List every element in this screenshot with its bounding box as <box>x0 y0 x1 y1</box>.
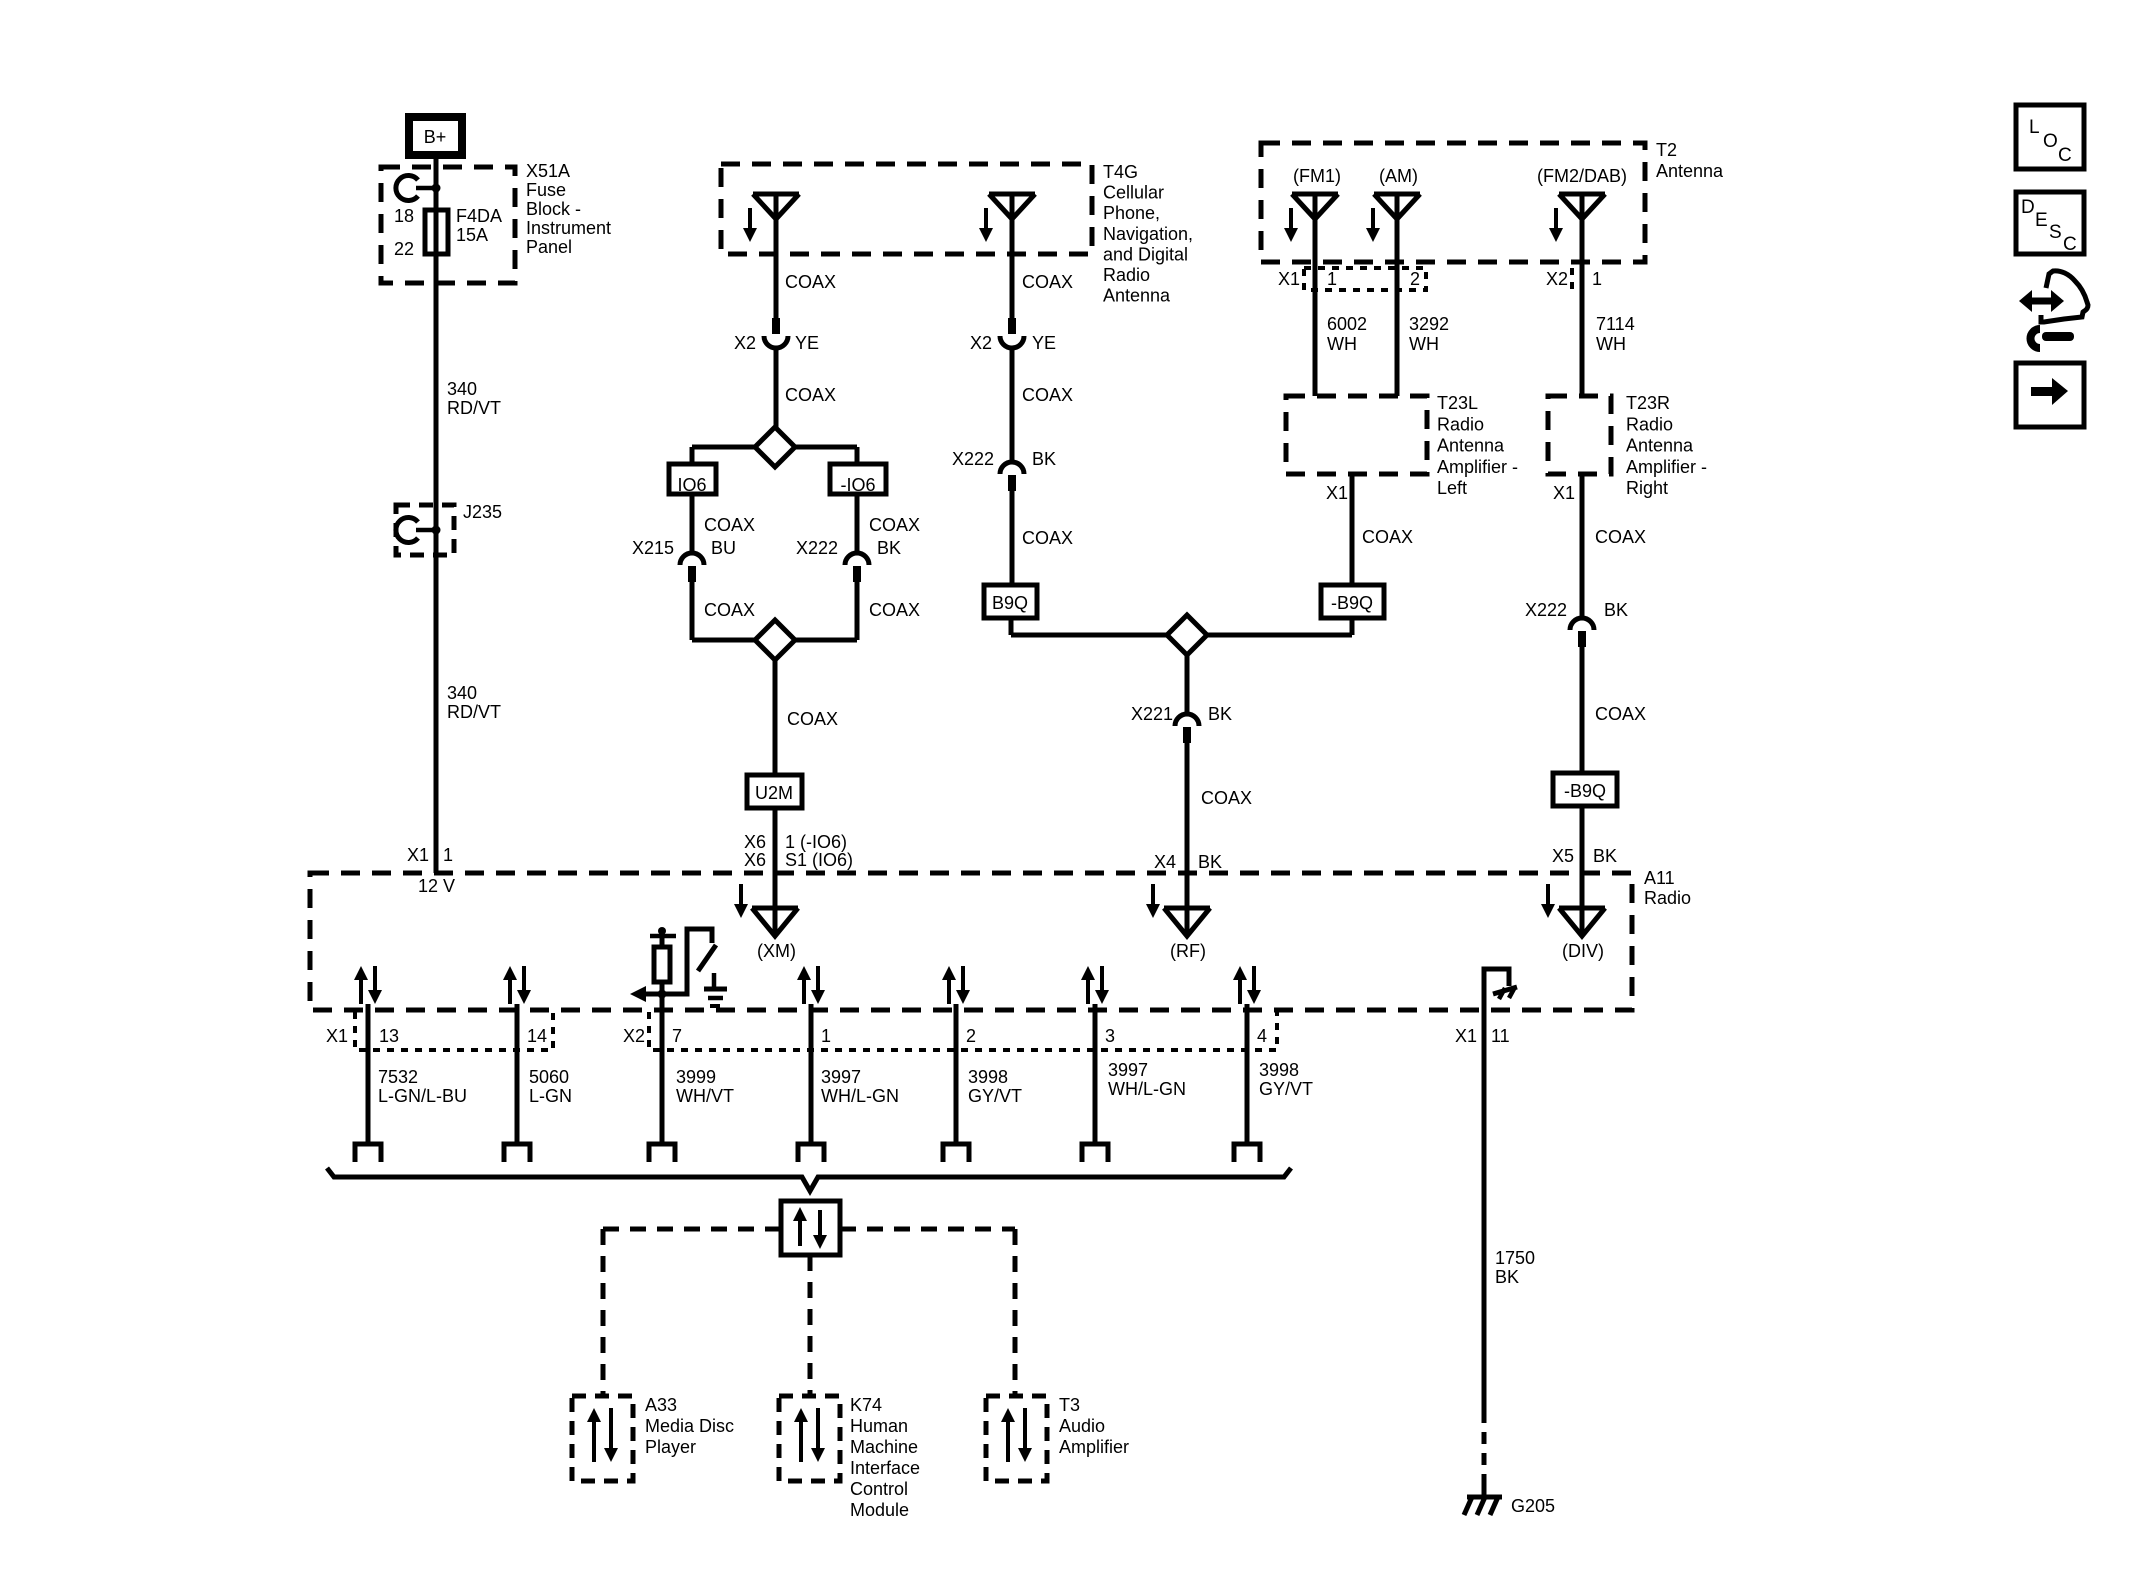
svg-text:COAX: COAX <box>1201 788 1252 808</box>
svg-text:WH: WH <box>1327 334 1357 354</box>
svg-text:14: 14 <box>527 1026 547 1046</box>
svg-text:Instrument: Instrument <box>526 218 611 238</box>
svg-text:COAX: COAX <box>787 709 838 729</box>
svg-text:and Digital: and Digital <box>1103 244 1188 264</box>
svg-text:BK: BK <box>1032 449 1056 469</box>
svg-text:RD/VT: RD/VT <box>447 702 501 722</box>
svg-text:-B9Q: -B9Q <box>1564 781 1606 801</box>
svg-text:X5: X5 <box>1552 846 1574 866</box>
svg-text:1750: 1750 <box>1495 1248 1535 1268</box>
svg-text:X2: X2 <box>1546 269 1568 289</box>
svg-text:Fuse: Fuse <box>526 180 566 200</box>
svg-text:(RF): (RF) <box>1170 941 1206 961</box>
svg-text:COAX: COAX <box>704 600 755 620</box>
svg-text:4: 4 <box>1257 1026 1267 1046</box>
svg-text:(AM): (AM) <box>1379 166 1418 186</box>
svg-text:Machine: Machine <box>850 1437 918 1457</box>
svg-text:2: 2 <box>1410 269 1420 289</box>
svg-text:L-GN: L-GN <box>529 1086 572 1106</box>
svg-text:O: O <box>2043 131 2058 152</box>
svg-text:1: 1 <box>821 1026 831 1046</box>
svg-text:X215: X215 <box>632 538 674 558</box>
svg-text:J235: J235 <box>463 502 502 522</box>
svg-text:T4G: T4G <box>1103 162 1138 182</box>
svg-text:C: C <box>2058 145 2072 166</box>
svg-text:3998: 3998 <box>1259 1060 1299 1080</box>
svg-text:X1: X1 <box>326 1026 348 1046</box>
svg-text:IO6: IO6 <box>677 475 706 495</box>
svg-text:COAX: COAX <box>1022 385 1073 405</box>
svg-text:S1 (IO6): S1 (IO6) <box>785 850 853 870</box>
svg-text:15A: 15A <box>456 225 488 245</box>
svg-text:WH/VT: WH/VT <box>676 1086 734 1106</box>
svg-text:22: 22 <box>394 239 414 259</box>
svg-text:Cellular: Cellular <box>1103 183 1164 203</box>
svg-text:YE: YE <box>795 333 819 353</box>
svg-text:COAX: COAX <box>704 515 755 535</box>
svg-text:B9Q: B9Q <box>992 593 1028 613</box>
svg-text:Control: Control <box>850 1479 908 1499</box>
svg-text:YE: YE <box>1032 333 1056 353</box>
svg-text:BK: BK <box>1208 704 1232 724</box>
svg-text:L: L <box>2029 117 2040 138</box>
svg-text:F4DA: F4DA <box>456 206 502 226</box>
svg-text:T2: T2 <box>1656 140 1677 160</box>
svg-text:D: D <box>2021 197 2035 218</box>
svg-text:WH: WH <box>1409 334 1439 354</box>
svg-text:(XM): (XM) <box>757 941 796 961</box>
svg-text:1: 1 <box>443 845 453 865</box>
svg-text:Interface: Interface <box>850 1458 920 1478</box>
svg-text:3997: 3997 <box>821 1067 861 1087</box>
svg-text:Audio: Audio <box>1059 1416 1105 1436</box>
svg-text:1 (-IO6): 1 (-IO6) <box>785 832 847 852</box>
svg-text:B+: B+ <box>424 127 447 147</box>
svg-text:WH: WH <box>1596 334 1626 354</box>
svg-text:340: 340 <box>447 379 477 399</box>
svg-text:COAX: COAX <box>785 272 836 292</box>
svg-text:X2: X2 <box>970 333 992 353</box>
svg-text:7532: 7532 <box>378 1067 418 1087</box>
svg-text:Block -: Block - <box>526 199 581 219</box>
svg-text:2: 2 <box>966 1026 976 1046</box>
svg-text:Phone,: Phone, <box>1103 203 1160 223</box>
svg-text:18: 18 <box>394 206 414 226</box>
svg-text:S: S <box>2049 222 2062 243</box>
svg-text:GY/VT: GY/VT <box>1259 1079 1313 1099</box>
svg-text:COAX: COAX <box>1595 527 1646 547</box>
svg-text:BK: BK <box>877 538 901 558</box>
svg-text:BK: BK <box>1604 600 1628 620</box>
svg-text:Antenna: Antenna <box>1656 161 1724 181</box>
svg-text:-IO6: -IO6 <box>840 475 875 495</box>
svg-text:7114: 7114 <box>1596 314 1635 334</box>
svg-text:Right: Right <box>1626 478 1668 498</box>
svg-text:A33: A33 <box>645 1395 677 1415</box>
svg-text:G205: G205 <box>1511 1496 1555 1516</box>
svg-text:BK: BK <box>1495 1267 1519 1287</box>
svg-text:X6: X6 <box>744 850 766 870</box>
svg-text:13: 13 <box>379 1026 399 1046</box>
svg-text:COAX: COAX <box>1022 272 1073 292</box>
svg-text:X1: X1 <box>407 845 429 865</box>
svg-text:Amplifier -: Amplifier - <box>1626 457 1707 477</box>
svg-text:X6: X6 <box>744 832 766 852</box>
svg-text:X222: X222 <box>1525 600 1567 620</box>
svg-text:X222: X222 <box>952 449 994 469</box>
svg-text:COAX: COAX <box>869 515 920 535</box>
svg-text:Human: Human <box>850 1416 908 1436</box>
svg-text:L-GN/L-BU: L-GN/L-BU <box>378 1086 467 1106</box>
svg-text:7: 7 <box>672 1026 682 1046</box>
svg-text:Left: Left <box>1437 478 1467 498</box>
svg-text:Antenna: Antenna <box>1103 286 1171 306</box>
svg-text:Radio: Radio <box>1626 414 1673 434</box>
svg-text:5060: 5060 <box>529 1067 569 1087</box>
svg-text:-B9Q: -B9Q <box>1331 593 1373 613</box>
svg-text:(FM2/DAB): (FM2/DAB) <box>1537 166 1627 186</box>
svg-text:Amplifier: Amplifier <box>1059 1437 1129 1457</box>
svg-text:COAX: COAX <box>785 385 836 405</box>
svg-text:COAX: COAX <box>1022 528 1073 548</box>
svg-text:C: C <box>2063 234 2077 255</box>
svg-text:COAX: COAX <box>1595 704 1646 724</box>
svg-text:RD/VT: RD/VT <box>447 398 501 418</box>
svg-text:1: 1 <box>1592 269 1602 289</box>
svg-text:1: 1 <box>1327 269 1337 289</box>
svg-text:U2M: U2M <box>755 783 793 803</box>
svg-text:BK: BK <box>1198 852 1222 872</box>
svg-text:3998: 3998 <box>968 1067 1008 1087</box>
svg-text:Radio: Radio <box>1437 414 1484 434</box>
svg-text:Antenna: Antenna <box>1626 436 1694 456</box>
svg-text:3997: 3997 <box>1108 1060 1148 1080</box>
svg-text:T23R: T23R <box>1626 393 1670 413</box>
svg-text:3999: 3999 <box>676 1067 716 1087</box>
svg-text:X51A: X51A <box>526 161 570 181</box>
svg-text:(DIV): (DIV) <box>1562 941 1604 961</box>
svg-text:X2: X2 <box>623 1026 645 1046</box>
svg-text:X4: X4 <box>1154 852 1176 872</box>
svg-text:Panel: Panel <box>526 237 572 257</box>
svg-text:X1: X1 <box>1455 1026 1477 1046</box>
svg-text:K74: K74 <box>850 1395 882 1415</box>
svg-text:T3: T3 <box>1059 1395 1080 1415</box>
svg-text:12 V: 12 V <box>418 876 455 896</box>
svg-text:340: 340 <box>447 683 477 703</box>
svg-text:Navigation,: Navigation, <box>1103 224 1193 244</box>
svg-text:E: E <box>2035 210 2048 231</box>
svg-text:X1: X1 <box>1278 269 1300 289</box>
svg-text:X222: X222 <box>796 538 838 558</box>
svg-text:(FM1): (FM1) <box>1293 166 1341 186</box>
svg-text:Module: Module <box>850 1500 909 1520</box>
svg-text:11: 11 <box>1491 1026 1510 1046</box>
svg-text:A11: A11 <box>1644 868 1675 888</box>
svg-text:Radio: Radio <box>1644 888 1691 908</box>
svg-text:COAX: COAX <box>1362 527 1413 547</box>
svg-text:BU: BU <box>711 538 736 558</box>
svg-text:6002: 6002 <box>1327 314 1367 334</box>
svg-text:Media Disc: Media Disc <box>645 1416 734 1436</box>
svg-text:GY/VT: GY/VT <box>968 1086 1022 1106</box>
svg-text:Radio: Radio <box>1103 265 1150 285</box>
svg-text:Antenna: Antenna <box>1437 436 1505 456</box>
svg-text:WH/L-GN: WH/L-GN <box>1108 1079 1186 1099</box>
svg-text:Player: Player <box>645 1437 696 1457</box>
svg-text:X1: X1 <box>1326 483 1348 503</box>
svg-text:X221: X221 <box>1131 704 1173 724</box>
svg-text:3292: 3292 <box>1409 314 1449 334</box>
svg-text:Amplifier -: Amplifier - <box>1437 457 1518 477</box>
svg-text:WH/L-GN: WH/L-GN <box>821 1086 899 1106</box>
svg-text:X1: X1 <box>1553 483 1575 503</box>
svg-text:COAX: COAX <box>869 600 920 620</box>
svg-text:T23L: T23L <box>1437 393 1478 413</box>
svg-text:3: 3 <box>1105 1026 1115 1046</box>
svg-text:BK: BK <box>1593 846 1617 866</box>
svg-text:X2: X2 <box>734 333 756 353</box>
